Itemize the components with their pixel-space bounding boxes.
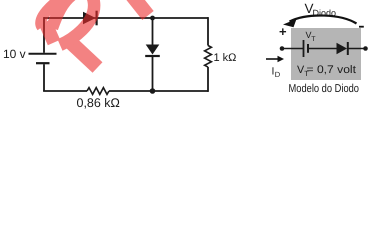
node junction dot bottom — [150, 88, 156, 94]
minus sign — [359, 26, 364, 28]
resistor R1 0,86 kOhm zigzag — [87, 88, 109, 95]
wire bottom left: corner to resistor — [43, 90, 87, 92]
wire middle branch upper — [152, 18, 154, 45]
watermark letter loop — [52, 0, 94, 45]
curved arrow V_Diodo — [290, 16, 357, 24]
diode D2 cathode bar — [145, 55, 160, 57]
diode D3 cathode bar — [347, 42, 349, 55]
wire bottom middle: resistor to junction — [109, 90, 153, 92]
node dot left terminal — [280, 46, 285, 51]
diode D2 triangle (middle branch, pointing down) — [146, 45, 160, 55]
svg-text:+: + — [279, 24, 287, 39]
node dot right terminal — [363, 46, 368, 51]
watermark letter leg — [66, 38, 98, 68]
diode D1 triangle (top wire, pointing right) — [83, 12, 96, 24]
battery VT long plate — [303, 40, 305, 57]
watermark letter stem — [45, 22, 54, 43]
battery V1 long plate — [29, 53, 57, 55]
svg-text:D: D — [275, 70, 281, 79]
svg-text:1 kΩ: 1 kΩ — [214, 52, 237, 64]
watermark letter hook — [41, 0, 68, 27]
wire middle branch lower — [152, 57, 154, 91]
battery VT short plate — [307, 44, 309, 53]
wire right branch lower — [207, 67, 209, 92]
wire left lower: battery to bottom corner — [43, 64, 45, 91]
wire bottom right: junction to right corner — [153, 90, 209, 92]
svg-text:10 v: 10 v — [3, 47, 26, 61]
current arrow ID — [266, 58, 281, 60]
wire right branch upper — [207, 17, 209, 45]
battery V1 short plate — [36, 62, 50, 64]
diode D1 cathode bar — [95, 11, 97, 26]
wire into box — [282, 48, 304, 50]
wire out of box — [348, 48, 366, 50]
wire top: battery to 1k branch — [44, 17, 208, 19]
wire left upper: corner down to battery — [43, 17, 45, 53]
gray model box — [291, 28, 361, 80]
curved arrow arrowhead — [283, 19, 297, 27]
node junction dot top — [150, 16, 155, 21]
watermark second letter fragment — [131, 0, 149, 16]
diode D3 triangle (model, pointing right) — [337, 43, 348, 55]
svg-text:Modelo do Diodo: Modelo do Diodo — [289, 83, 360, 95]
svg-text:= 0,7 volt: = 0,7 volt — [307, 64, 357, 76]
wire battery to diode — [308, 48, 337, 50]
svg-text:0,86 kΩ: 0,86 kΩ — [77, 96, 120, 110]
svg-text:T: T — [311, 36, 316, 43]
resistor R2 1 kOhm zigzag vertical — [205, 46, 212, 68]
